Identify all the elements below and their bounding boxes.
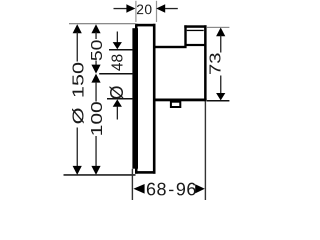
dim 73 top arrow xyxy=(216,28,225,53)
dim 20 left arrow xyxy=(114,4,136,12)
top extension line (trim top reference) xyxy=(69,23,136,24)
top housing box with inner lip line xyxy=(184,25,206,46)
trim unit outline (20 deep x 150 tall column) xyxy=(135,24,156,174)
dim 100 bottom arrow xyxy=(91,136,100,175)
svg-text:100: 100 xyxy=(88,101,106,136)
dim 50 top arrow xyxy=(91,24,100,39)
concealed body bottom edge xyxy=(155,99,206,102)
dim 68-96 left extension line (wall face) xyxy=(132,169,133,200)
svg-text:Ø: Ø xyxy=(107,85,127,99)
dim 50/100 shared bowtie arrows xyxy=(91,61,100,102)
dim 20 left extension line xyxy=(135,1,136,22)
concealed body top edge xyxy=(155,46,186,48)
dim D48 top arrow (outside, pointing down) xyxy=(113,32,122,50)
dim 68-96 right arrow xyxy=(195,184,205,193)
dim D150 top arrow xyxy=(73,24,82,61)
bottom notch tab on body xyxy=(170,101,181,108)
svg-text:50: 50 xyxy=(88,39,106,61)
dim 20 right extension line xyxy=(156,1,157,22)
svg-text:73: 73 xyxy=(207,52,224,75)
dim D48 top extension stub xyxy=(109,49,133,51)
svg-text:48: 48 xyxy=(109,54,126,71)
dim 73 bottom arrow xyxy=(216,76,225,101)
svg-text:68-96: 68-96 xyxy=(146,179,197,199)
dim 68-96 right extension line xyxy=(205,101,206,200)
dim D48 bottom extension stub xyxy=(107,98,133,100)
dim 73 bottom extension line xyxy=(207,100,230,102)
dim D150 bottom arrow xyxy=(73,128,82,175)
extension stub at 50/100 junction xyxy=(99,73,133,75)
concealed body right edge xyxy=(204,25,207,101)
wall plate (escutcheon) side profile, solid bar xyxy=(132,28,138,169)
dim 73 top extension line xyxy=(207,27,230,28)
svg-text:20: 20 xyxy=(136,2,152,17)
bottom extension line (trim bottom reference) xyxy=(64,174,136,176)
dim 20 right arrow xyxy=(156,4,178,12)
svg-text:Ø 150: Ø 150 xyxy=(69,62,86,124)
dim D48 bottom arrow (outside, pointing up) xyxy=(113,99,122,119)
dim 68-96 left arrow xyxy=(133,184,144,194)
